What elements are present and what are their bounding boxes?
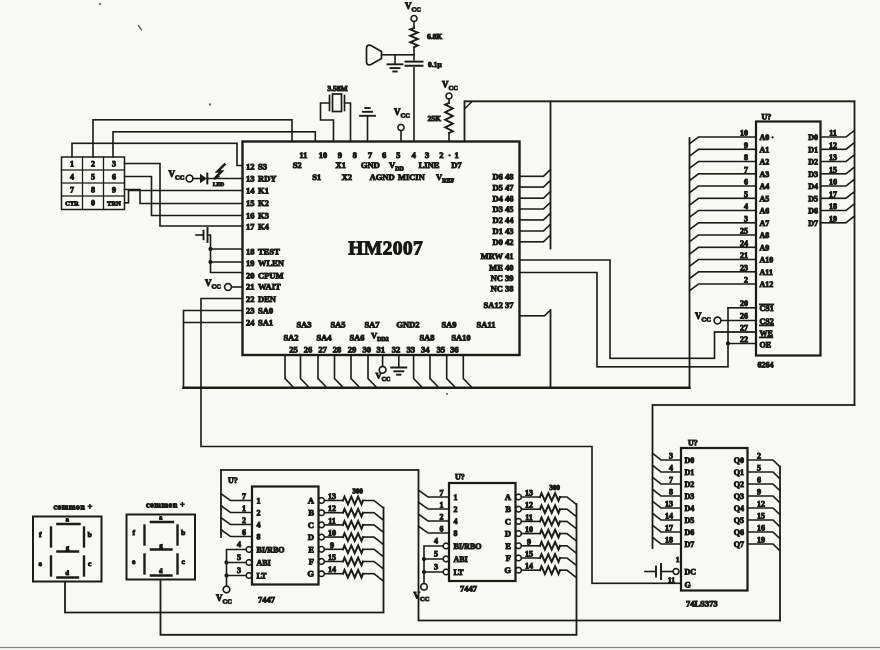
- IC U2 6264 SRAM body: [756, 122, 821, 356]
- svg-text:A0 ·: A0 ·: [760, 133, 774, 142]
- svg-text:WLEN: WLEN: [258, 258, 285, 268]
- svg-text:25: 25: [740, 227, 748, 236]
- svg-text:0: 0: [91, 199, 95, 208]
- svg-text:14: 14: [328, 565, 336, 574]
- svg-text:U?: U?: [228, 476, 238, 485]
- segment b: [176, 526, 178, 545]
- wire 25K to LINE pin: [448, 133, 450, 142]
- svg-text:35: 35: [437, 345, 446, 355]
- bus 7447#2 outputs to display 2: [161, 504, 577, 635]
- svg-text:8: 8: [91, 186, 95, 195]
- svg-text:A12: A12: [760, 280, 774, 289]
- svg-text:E: E: [505, 541, 511, 551]
- svg-text:4: 4: [412, 150, 417, 160]
- LED D1: [193, 178, 200, 180]
- power Vcc (WAIT pin 21): [225, 284, 232, 291]
- wire D7 pin1 riser to data bus: [465, 101, 855, 141]
- svg-text:CPUM: CPUM: [258, 270, 284, 280]
- svg-text:21: 21: [740, 251, 748, 260]
- svg-text:D2: D2: [808, 158, 818, 167]
- svg-text:6: 6: [744, 178, 748, 187]
- microphone MIC: [367, 45, 382, 65]
- HM2007 bottom pin drops SA8-SA11 (33-36) onto address bus: [414, 355, 423, 387]
- svg-text:1: 1: [454, 493, 458, 502]
- svg-text:1: 1: [242, 504, 246, 513]
- svg-text:E: E: [308, 544, 314, 554]
- wire keypad col2 to S2 pin 11: [93, 120, 292, 157]
- svg-text:D5 47: D5 47: [492, 182, 514, 192]
- svg-text:BI/RBO: BI/RBO: [257, 546, 285, 555]
- svg-text:D1: D1: [685, 468, 695, 477]
- svg-text:C: C: [505, 516, 511, 526]
- 7447 input 1 pin 7: [419, 490, 450, 497]
- svg-text:18: 18: [665, 536, 673, 545]
- svg-text:16: 16: [757, 524, 765, 533]
- 6264 WE pin 27: [715, 331, 757, 333]
- wire WLEN pin 19: [211, 261, 243, 263]
- svg-text:5: 5: [757, 464, 761, 473]
- 74LS373 output Q5 pin 15: [748, 520, 781, 527]
- svg-text:U?: U?: [762, 113, 772, 122]
- stray scan speck: [99, 3, 101, 5]
- resistor 6.8K: [410, 28, 418, 47]
- svg-text:D4: D4: [685, 504, 695, 513]
- svg-text:11: 11: [829, 129, 837, 138]
- svg-text:S1: S1: [312, 172, 321, 182]
- svg-text:3.58M: 3.58M: [327, 84, 347, 93]
- svg-text:K2: K2: [258, 198, 269, 208]
- 74LS373 output Q7 pin 19: [748, 544, 781, 551]
- svg-text:D6 48: D6 48: [492, 172, 513, 182]
- svg-text:16: 16: [829, 178, 837, 187]
- svg-text:TRN: TRN: [107, 201, 121, 208]
- svg-text:12: 12: [246, 161, 255, 171]
- svg-text:LT: LT: [257, 572, 268, 581]
- 74LS373 output Q3 pin 9: [748, 496, 781, 503]
- stray scan speck: [209, 103, 211, 105]
- svg-text:K1: K1: [258, 185, 269, 195]
- 6264 pin 21 A10: [690, 260, 757, 267]
- wire data bus down to 74LS373 inputs: [653, 405, 855, 548]
- svg-text:12: 12: [328, 504, 336, 513]
- svg-text:2: 2: [242, 516, 246, 525]
- svg-text:D1: D1: [808, 145, 818, 154]
- svg-text:9: 9: [527, 537, 531, 546]
- svg-text:20: 20: [740, 299, 748, 308]
- svg-text:1: 1: [70, 160, 74, 169]
- svg-text:13: 13: [665, 500, 673, 509]
- 74LS373 output Q6 pin 16: [748, 532, 781, 539]
- svg-text:6: 6: [242, 528, 246, 537]
- svg-text:SA12 37: SA12 37: [484, 300, 515, 310]
- svg-text:18: 18: [246, 246, 255, 256]
- svg-text:ABI: ABI: [454, 555, 468, 564]
- 6264 pin 8 A2: [690, 162, 757, 169]
- svg-text:D3: D3: [808, 170, 818, 179]
- capacitor 0.1u: [406, 61, 423, 63]
- svg-text:7447: 7447: [460, 584, 478, 594]
- svg-text:MICIN: MICIN: [398, 172, 426, 182]
- segment b: [83, 528, 85, 547]
- svg-text:25K: 25K: [428, 114, 442, 123]
- svg-text:D7: D7: [685, 540, 695, 549]
- svg-text:D5: D5: [685, 516, 695, 525]
- svg-text:3: 3: [237, 566, 241, 575]
- svg-text:3: 3: [744, 214, 748, 223]
- svg-text:13: 13: [525, 489, 533, 498]
- svg-text:12: 12: [829, 141, 837, 150]
- wire mic to node: [382, 54, 415, 56]
- svg-text:30: 30: [363, 345, 372, 355]
- svg-text:GND: GND: [361, 160, 380, 170]
- IC U4 7447 decoder #1: [252, 487, 319, 585]
- svg-text:D7: D7: [451, 160, 462, 170]
- svg-text:29: 29: [348, 345, 357, 355]
- svg-text:D0 42: D0 42: [492, 237, 513, 247]
- svg-text:3: 3: [669, 452, 673, 461]
- 6264 pin 6 A4: [690, 186, 757, 193]
- segment c: [176, 555, 178, 574]
- stray scan speck: [446, 393, 448, 395]
- junction LT: [224, 573, 228, 577]
- svg-text:12: 12: [525, 501, 533, 510]
- svg-text:DEN: DEN: [258, 294, 277, 304]
- 74LS373 output Q2 pin 6: [748, 484, 781, 491]
- svg-text:28: 28: [333, 345, 342, 355]
- svg-text:17: 17: [665, 524, 673, 533]
- svg-text:27: 27: [318, 345, 327, 355]
- svg-text:A7: A7: [760, 219, 770, 228]
- svg-text:D0: D0: [685, 456, 695, 465]
- svg-text:D2 44: D2 44: [492, 215, 514, 225]
- svg-text:2: 2: [744, 276, 748, 285]
- svg-text:31: 31: [376, 345, 385, 355]
- capacitor C2 on latch DC pin 1: [645, 571, 655, 573]
- wire SA12 pin 37 to address bus: [520, 310, 551, 316]
- svg-text:11: 11: [299, 150, 307, 160]
- bus 7447#1 inputs: [220, 470, 222, 537]
- wire keypad row3 to K2 pin 15: [125, 190, 243, 204]
- svg-text:33: 33: [407, 345, 416, 355]
- svg-text:TEST: TEST: [258, 246, 280, 256]
- wire crystal X1 lead: [321, 103, 334, 142]
- svg-text:8: 8: [257, 533, 261, 542]
- svg-text:6264: 6264: [758, 361, 774, 370]
- 6264 pin 23 A11: [690, 272, 757, 279]
- segment d: [57, 576, 78, 578]
- svg-text:X2: X2: [342, 172, 352, 182]
- svg-text:10: 10: [328, 529, 336, 538]
- 7447 BI/RBO pin 4: [246, 547, 252, 553]
- svg-text:17: 17: [829, 190, 837, 199]
- 7447 input 1 pin 7: [221, 494, 252, 501]
- svg-text:D0: D0: [808, 133, 818, 142]
- svg-text:4: 4: [237, 540, 241, 549]
- svg-text:1: 1: [257, 497, 261, 506]
- 6264 CS2 pin 26 to Vcc: [714, 317, 721, 324]
- svg-text:X1: X1: [336, 160, 346, 170]
- display DS1 7-segment (common +): [33, 517, 102, 582]
- svg-text:15: 15: [829, 165, 837, 174]
- svg-text:DC: DC: [685, 568, 697, 577]
- svg-text:A4: A4: [760, 182, 770, 191]
- 74LS373 output Q1 pin 5: [748, 472, 781, 479]
- svg-text:NC 39: NC 39: [491, 273, 514, 283]
- svg-text:D2: D2: [685, 480, 695, 489]
- svg-text:27: 27: [740, 324, 748, 333]
- svg-text:1: 1: [454, 150, 458, 160]
- capacitor C1 (TEST pin network): [196, 234, 203, 236]
- 7447 input 8 pin 6: [221, 530, 252, 537]
- 6264 CS1 pin 20: [728, 307, 756, 309]
- svg-text:LT: LT: [454, 568, 465, 577]
- 7447 input 4 pin 2: [221, 518, 252, 525]
- wire CS1 to OE tie: [727, 308, 729, 344]
- svg-text:B: B: [505, 504, 511, 514]
- svg-text:SA7: SA7: [364, 320, 380, 330]
- svg-text:6: 6: [112, 173, 116, 182]
- svg-text:U?: U?: [455, 473, 465, 482]
- wire BI/ABI/LT tie to Vcc: [227, 550, 247, 587]
- svg-text:12: 12: [757, 500, 765, 509]
- svg-text:LED: LED: [213, 182, 224, 188]
- 6264 pin 7 A3: [690, 174, 757, 181]
- svg-text:D3 45: D3 45: [492, 204, 513, 214]
- bus address into 6264 (A0-A12): [689, 138, 691, 388]
- svg-text:15: 15: [328, 553, 336, 562]
- svg-text:22: 22: [740, 335, 748, 344]
- svg-text:G: G: [307, 569, 314, 579]
- svg-text:A9: A9: [760, 243, 770, 252]
- svg-text:ABI: ABI: [257, 559, 271, 568]
- svg-text:Q7: Q7: [734, 540, 744, 549]
- wire TEST pin 18: [211, 248, 243, 250]
- svg-text:MRW 41: MRW 41: [481, 251, 514, 261]
- 74LS373 input D4 pin 13: [653, 501, 682, 508]
- wire MRW pin 41 to 6264 WE: [520, 260, 757, 358]
- svg-text:GND2: GND2: [396, 320, 419, 330]
- svg-text:SA6: SA6: [349, 333, 364, 343]
- svg-text:15: 15: [757, 512, 765, 521]
- svg-text:2: 2: [757, 452, 761, 461]
- svg-text:13: 13: [829, 153, 837, 162]
- bus data (right of HM2007): [550, 101, 552, 248]
- svg-text:D6: D6: [685, 528, 695, 537]
- wire keypad row4 to K1 pin 14: [125, 191, 243, 203]
- svg-text:5: 5: [91, 173, 95, 182]
- svg-text:K3: K3: [258, 210, 269, 220]
- svg-text:4: 4: [70, 173, 74, 182]
- svg-text:14: 14: [525, 562, 533, 571]
- 74LS373 input D2 pin 7: [653, 477, 682, 484]
- svg-text:74LS373: 74LS373: [686, 599, 718, 609]
- 6264 pin 24 A9: [690, 247, 757, 254]
- 6264 pin 3 A7: [690, 223, 757, 230]
- IC U1 HM2007 body: [243, 142, 520, 356]
- wire corner chamfer notch: [465, 102, 472, 109]
- svg-text:25: 25: [289, 345, 298, 355]
- svg-text:Q4: Q4: [734, 504, 744, 513]
- svg-text:A10: A10: [760, 256, 774, 265]
- svg-text:8: 8: [744, 153, 748, 162]
- svg-text:6: 6: [440, 525, 444, 534]
- inverter bubble DC pin: [673, 569, 679, 575]
- svg-text:SA11: SA11: [477, 320, 496, 330]
- svg-text:LINE: LINE: [419, 160, 440, 170]
- svg-text:S3: S3: [258, 161, 267, 171]
- segment c: [83, 557, 85, 576]
- svg-text:19: 19: [829, 214, 837, 223]
- 6264 pin 25 A8: [690, 235, 757, 242]
- svg-text:2: 2: [439, 150, 443, 160]
- svg-text:A2: A2: [760, 158, 770, 167]
- svg-text:SA4: SA4: [316, 333, 332, 343]
- svg-text:SA9: SA9: [441, 320, 456, 330]
- wire keypad row1 to K4 pin 17: [125, 164, 243, 227]
- 7447 input 2 pin 1: [221, 506, 252, 513]
- svg-text:common +: common +: [146, 501, 185, 510]
- svg-text:32: 32: [392, 345, 401, 355]
- svg-text:HM2007: HM2007: [348, 239, 423, 260]
- svg-text:24: 24: [246, 318, 255, 328]
- svg-text:A8: A8: [760, 231, 770, 240]
- svg-text:CS1: CS1: [760, 304, 774, 313]
- wire SA1 pin 24 joins SA0 drop: [184, 322, 243, 324]
- svg-text:7: 7: [242, 492, 246, 501]
- 6264 pin 10 A0: [690, 137, 757, 144]
- svg-text:4: 4: [434, 537, 438, 546]
- svg-text:B: B: [308, 508, 314, 518]
- svg-text:7: 7: [70, 186, 74, 195]
- power Vcc (LED): [186, 175, 193, 182]
- svg-text:3: 3: [425, 150, 429, 160]
- svg-text:WE: WE: [760, 329, 773, 338]
- 7447 input 4 pin 2: [419, 514, 450, 521]
- svg-text:36: 36: [450, 345, 459, 355]
- ground (pin 7 GND): [367, 116, 369, 142]
- power Vcc (25K pull-up): [446, 93, 452, 99]
- svg-text:A: A: [308, 496, 315, 506]
- 6264 pin 9 A1: [690, 149, 757, 156]
- svg-text:11: 11: [525, 513, 533, 522]
- svg-text:21: 21: [246, 282, 255, 292]
- svg-text:common +: common +: [53, 503, 92, 512]
- 6264 pin 2 A12: [690, 284, 757, 291]
- wire data lines D6-D0 (pins 48-42) to data bus stub: [520, 170, 551, 177]
- svg-text:ME 40: ME 40: [489, 263, 513, 273]
- svg-text:8: 8: [669, 488, 673, 497]
- wire keypad row2 to K3 pin 16: [125, 177, 243, 216]
- svg-text:34: 34: [421, 345, 430, 355]
- svg-text:11: 11: [668, 576, 675, 585]
- svg-text:7: 7: [744, 165, 748, 174]
- svg-text:G: G: [504, 565, 511, 575]
- svg-text:D3: D3: [685, 492, 695, 501]
- svg-text:SA1: SA1: [258, 318, 273, 328]
- svg-text:5: 5: [237, 553, 241, 562]
- segment f: [50, 528, 52, 547]
- svg-text:7: 7: [440, 489, 444, 498]
- svg-text:A1: A1: [760, 145, 770, 154]
- svg-text:9: 9: [112, 186, 116, 195]
- 6264 data pins D0-D7 to right data bus: [821, 130, 855, 137]
- 7447 ABI pin 5: [443, 556, 449, 562]
- svg-text:2: 2: [257, 509, 261, 518]
- svg-text:d: d: [159, 568, 163, 575]
- svg-text:D5: D5: [808, 194, 818, 203]
- svg-text:2: 2: [454, 505, 458, 514]
- junction TEST node: [208, 247, 212, 251]
- svg-text:9: 9: [744, 141, 748, 150]
- svg-text:Q2: Q2: [734, 480, 744, 489]
- svg-text:BI/RBO: BI/RBO: [454, 542, 482, 551]
- 74LS373 input D3 pin 8: [653, 489, 682, 496]
- svg-text:20: 20: [246, 270, 255, 280]
- 74LS373 output Q0 pin 2: [748, 460, 781, 467]
- wire crystal X2 lead: [345, 103, 351, 142]
- svg-text:3: 3: [112, 160, 116, 169]
- power Vcc (7447): [421, 584, 428, 591]
- svg-text:Q5: Q5: [734, 516, 744, 525]
- svg-text:A5: A5: [760, 194, 770, 203]
- svg-text:22: 22: [246, 294, 255, 304]
- svg-text:K4: K4: [258, 221, 270, 231]
- 74LS373 input D6 pin 17: [653, 525, 682, 532]
- svg-text:15: 15: [525, 550, 533, 559]
- svg-text:U?: U?: [688, 439, 698, 448]
- junction ABI: [422, 557, 426, 561]
- wire BI/ABI/LT tie to Vcc: [424, 546, 443, 584]
- svg-text:7447: 7447: [258, 595, 276, 605]
- svg-text:G: G: [685, 581, 691, 590]
- svg-text:A: A: [505, 492, 512, 502]
- svg-text:d: d: [65, 570, 69, 577]
- svg-text:13: 13: [328, 492, 336, 501]
- 6264 pin 5 A5: [690, 198, 757, 205]
- svg-text:4: 4: [669, 464, 673, 473]
- wire cap to MICIN pin 4: [413, 68, 415, 142]
- svg-text:1: 1: [440, 501, 444, 510]
- svg-text:·: ·: [448, 150, 451, 160]
- power Vcc (VDD2 pin 31): [382, 355, 384, 366]
- IC U3 74LS373 body: [681, 448, 748, 591]
- svg-text:RDY: RDY: [258, 173, 276, 183]
- svg-text:19: 19: [757, 536, 765, 545]
- junction LT: [422, 570, 426, 574]
- power Vcc (7447): [223, 586, 230, 593]
- svg-text:17: 17: [246, 221, 255, 231]
- wire resistor to mic node: [413, 48, 415, 60]
- svg-text:SA5: SA5: [330, 320, 345, 330]
- svg-text:WAIT: WAIT: [258, 282, 281, 292]
- svg-text:2: 2: [440, 513, 444, 522]
- power Vcc (pin 5 VDD): [398, 124, 404, 130]
- svg-text:Q3: Q3: [734, 492, 744, 501]
- svg-text:b: b: [181, 528, 185, 537]
- segment a: [151, 521, 173, 523]
- keypad 3x4 matrix: [62, 157, 125, 210]
- svg-text:5: 5: [744, 190, 748, 199]
- 6264 pin 4 A6: [690, 211, 757, 218]
- svg-text:14: 14: [246, 185, 255, 195]
- svg-text:11: 11: [328, 516, 336, 525]
- svg-text:9: 9: [757, 488, 761, 497]
- stray scan tick (top left): [139, 26, 142, 31]
- svg-text:A6: A6: [760, 207, 770, 216]
- svg-text:SA10: SA10: [451, 333, 470, 343]
- svg-text:D1 43: D1 43: [492, 226, 513, 236]
- svg-text:23: 23: [246, 306, 255, 316]
